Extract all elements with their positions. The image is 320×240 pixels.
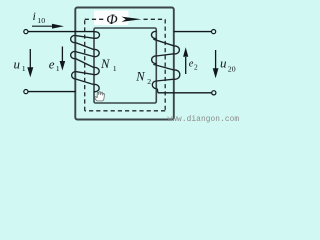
N1 front diagonal 2	[76, 59, 94, 68]
flux right dashed line	[164, 19, 166, 111]
e2 arrow (up)	[183, 47, 188, 74]
svg-text:N: N	[100, 57, 110, 71]
flux arrow	[122, 17, 142, 22]
terminal bottom-left	[24, 90, 28, 94]
flux dashed loop	[85, 19, 166, 111]
top-left wire	[28, 31, 94, 33]
white halo box behind flux label	[94, 11, 129, 26]
primary winding N1	[71, 32, 100, 92]
bottom-right wire	[158, 92, 212, 94]
N2 front diagonal 2	[153, 64, 174, 70]
svg-text:20: 20	[228, 65, 236, 74]
N2 left bump 1	[151, 31, 156, 38]
N2 right bump 1	[174, 46, 180, 54]
N2 left bump 3 tail into bottom wire	[156, 89, 158, 93]
bottom-left wire	[28, 91, 76, 93]
N1 front diagonal 3	[76, 79, 94, 85]
N1 left bump 2	[71, 52, 76, 59]
flux bottom dashed line	[85, 110, 166, 112]
svg-text:1: 1	[113, 64, 117, 73]
svg-text:u: u	[220, 56, 227, 71]
N1 right bump 3	[94, 67, 99, 74]
N2 back wire 1	[156, 54, 174, 56]
N2 left bump 2	[152, 56, 157, 64]
N1 right bump 4	[94, 85, 99, 92]
N2 left bump 3	[152, 81, 156, 89]
terminal bottom-right	[212, 91, 216, 95]
flux left dashed line	[84, 19, 86, 111]
current i10 arrow	[32, 24, 64, 29]
svg-text:1: 1	[22, 64, 26, 73]
N1 back wire 3	[76, 72, 94, 75]
svg-text:www.diangon.com: www.diangon.com	[168, 116, 240, 124]
svg-text:2: 2	[194, 63, 198, 72]
flux top dashed line	[85, 18, 166, 20]
svg-text:Φ: Φ	[106, 12, 118, 28]
N2 back wire 2	[156, 79, 174, 81]
N2 front diagonal 1	[153, 39, 174, 46]
N1 left bump 3	[72, 72, 76, 79]
svg-text:2: 2	[147, 77, 151, 86]
N2 right bump 2	[174, 70, 180, 79]
svg-text:i: i	[33, 9, 36, 23]
core inner rectangle (window)	[94, 28, 156, 103]
N1 back wire 2	[76, 52, 94, 57]
svg-text:u: u	[14, 56, 21, 71]
top-right wire	[174, 31, 212, 33]
N1 right bump 1	[93, 32, 100, 39]
secondary winding N2	[151, 31, 179, 92]
N1 right bump 2	[94, 50, 99, 57]
N1 left bump 1	[71, 36, 76, 43]
terminal top-left	[24, 30, 28, 34]
N1 back wire 1	[76, 36, 94, 39]
hand cursor icon	[95, 92, 104, 101]
terminal top-right	[212, 30, 216, 34]
N1 front diagonal 1	[76, 43, 94, 50]
svg-text:10: 10	[37, 16, 45, 25]
svg-text:N: N	[135, 69, 145, 83]
core outer rectangle	[75, 8, 174, 120]
u1 arrow (down)	[27, 49, 33, 77]
svg-text:1: 1	[56, 64, 60, 73]
u20 arrow (down)	[213, 50, 219, 78]
e1 arrow (down)	[60, 47, 66, 71]
svg-text:e: e	[49, 56, 55, 71]
